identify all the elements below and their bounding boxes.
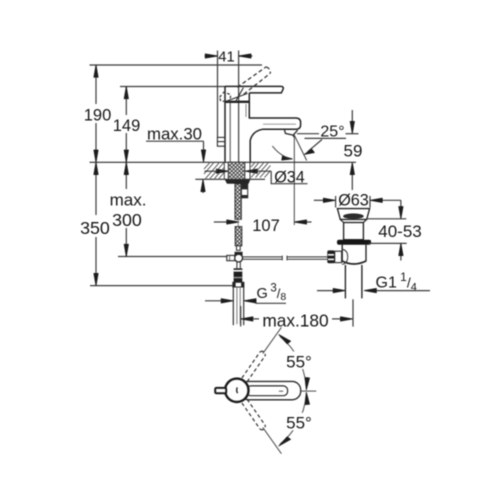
extension line 41 right / faucet centerline bbox=[238, 51, 240, 163]
SINK DECK bbox=[90, 162, 357, 179]
G 3/8 dimension arrows bbox=[205, 301, 286, 304]
stream swivel arc bbox=[272, 146, 290, 159]
dim 59 vertical upper tail bbox=[351, 110, 353, 123]
arrow 107 left->right bbox=[227, 220, 239, 224]
aerator outlet bbox=[284, 129, 297, 135]
rod socket body bbox=[335, 251, 342, 262]
dim line 350 vertical bbox=[95, 162, 97, 215]
svg-text:Ø63: Ø63 bbox=[338, 191, 369, 209]
extension line top of lever (190 ref) bbox=[90, 64, 263, 66]
body inner left line bbox=[229, 103, 231, 162]
spout inner line bbox=[263, 123, 296, 125]
raised lever dashed bbox=[220, 67, 271, 102]
arrow stream arc bbox=[282, 156, 293, 160]
deck bottom line bbox=[195, 178, 265, 180]
body right edge + spout outline bbox=[249, 93, 300, 162]
threaded rod upper bbox=[235, 184, 241, 220]
deck hatching left bbox=[204, 163, 271, 179]
base plate outline (keyhole) bbox=[240, 381, 301, 399]
svg-text:107: 107 bbox=[252, 217, 280, 235]
svg-text:max.180: max.180 bbox=[262, 310, 328, 330]
arrow max300 top bbox=[124, 163, 128, 175]
svg-text:max.30: max.30 bbox=[147, 124, 202, 143]
dashed lever rotated down 55 bbox=[242, 399, 266, 429]
stream vertical reference line bbox=[293, 135, 295, 225]
cartridge diagonal detail bbox=[227, 93, 248, 101]
hose stem below ball bbox=[236, 262, 238, 269]
extension line 41 left bbox=[217, 51, 219, 138]
arc arrow top-lower bbox=[305, 378, 309, 390]
cartridge seam thick bbox=[225, 101, 249, 103]
25deg underline bbox=[305, 137, 347, 139]
arc arrow bottom-upper bbox=[305, 392, 309, 404]
body bottom curve bbox=[342, 261, 366, 264]
handle end tick bbox=[279, 390, 283, 392]
svg-text:350: 350 bbox=[80, 218, 110, 238]
arrow O34 left bbox=[216, 169, 228, 173]
55 arc top bbox=[280, 337, 306, 387]
popup rod guide block bbox=[241, 184, 247, 198]
arrow 41 left bbox=[205, 54, 217, 58]
stream angled 25deg line bbox=[294, 135, 306, 160]
dim 59 vertical lower tail bbox=[351, 174, 353, 190]
svg-text:300: 300 bbox=[112, 210, 142, 230]
popup knob tab on body left bbox=[217, 137, 225, 146]
hose tube bbox=[232, 287, 234, 325]
arrow 350 top bbox=[94, 163, 98, 175]
svg-text:40-53: 40-53 bbox=[378, 222, 421, 241]
svg-text:41: 41 bbox=[218, 50, 234, 66]
55deg direction line up bbox=[263, 327, 282, 353]
svg-text:55°: 55° bbox=[286, 414, 312, 433]
dim line 149 vertical bbox=[125, 87, 127, 116]
svg-text:149: 149 bbox=[113, 117, 141, 135]
arrow 149 bottom bbox=[124, 150, 128, 162]
max30 lower arrow tail bbox=[202, 188, 204, 193]
svg-text:Ø34: Ø34 bbox=[274, 169, 305, 187]
max30 leader underline bbox=[146, 140, 204, 142]
rubber gasket ring bbox=[337, 240, 371, 245]
arrow 190 top bbox=[94, 65, 98, 77]
arrow 149 top bbox=[124, 87, 128, 99]
hose end tick bbox=[240, 306, 242, 327]
popup knob stub (top) bbox=[215, 388, 226, 393]
flange neck lines bbox=[340, 219, 343, 222]
svg-text:25°: 25° bbox=[320, 123, 344, 140]
55deg direction line down bbox=[263, 427, 282, 453]
TOP VIEW (swivel range) bbox=[215, 327, 316, 453]
arrow 59 bottom up bbox=[350, 163, 354, 175]
centerline right bbox=[301, 390, 317, 392]
dashed lever rotated up 55 bbox=[242, 351, 266, 381]
extension line lever top (149 ref) bbox=[120, 86, 226, 88]
svg-text:max.: max. bbox=[110, 191, 147, 210]
svg-text:55°: 55° bbox=[286, 352, 312, 371]
svg-text:59: 59 bbox=[344, 142, 363, 161]
dim line 190 vertical bbox=[95, 65, 97, 104]
arrow 41 right bbox=[239, 54, 251, 58]
horizontal popup rod bbox=[243, 256, 328, 261]
max180 dimension bbox=[241, 299, 353, 326]
lever handle top view bbox=[247, 386, 288, 396]
svg-text:190: 190 bbox=[84, 107, 112, 125]
dim line max300 vertical bbox=[125, 162, 127, 189]
drain upper body bbox=[344, 223, 364, 240]
arrow 190 bottom bbox=[94, 150, 98, 162]
DRAIN / POP-UP WASTE bbox=[314, 196, 430, 298]
rod gap centerline bbox=[237, 219, 239, 226]
locking nut dark bbox=[225, 180, 251, 184]
arrow 107 right->left bbox=[295, 220, 307, 224]
25deg leader line bbox=[308, 140, 323, 152]
rod left fitting bbox=[227, 255, 235, 260]
pivot mark bbox=[236, 387, 239, 393]
lever handle (solid, horizontal) bbox=[225, 86, 283, 93]
drain flange bbox=[337, 209, 369, 220]
G1 1/4 dimension bbox=[317, 290, 430, 292]
raised lever short end dashed pentagon bbox=[220, 92, 231, 101]
arrow max300 bottom bbox=[124, 244, 128, 256]
40-53 dimension bbox=[366, 200, 407, 260]
lever pivot diagonal bbox=[236, 88, 243, 101]
water stream indicator bbox=[272, 135, 306, 225]
plug dome cap bbox=[343, 213, 364, 219]
arrow max30 down bbox=[201, 150, 205, 162]
55 arc bottom bbox=[280, 396, 306, 444]
deck hatching right bbox=[251, 163, 271, 178]
deck hole edges bbox=[223, 162, 225, 179]
extension line hose coupling (350 ref) bbox=[90, 285, 233, 287]
drain lower body bbox=[341, 245, 343, 262]
supply hose assembly bbox=[233, 262, 244, 326]
svg-text:G3/8: G3/8 bbox=[257, 282, 287, 303]
dim 41 arrows tails bbox=[205, 55, 218, 57]
extension line popup rod (max300 ref) bbox=[118, 256, 227, 258]
rod socket boss arc bbox=[342, 249, 348, 264]
arrow 25deg leader bbox=[305, 149, 315, 154]
rod stem bbox=[237, 246, 241, 251]
O63 dimension bbox=[314, 196, 401, 208]
arrowheads group 1 bbox=[94, 54, 355, 286]
arc arrow top-upper bbox=[279, 335, 291, 344]
BELOW DECK: mounting shank bbox=[225, 162, 251, 262]
FAUCET MAIN VIEW bbox=[225, 86, 301, 162]
deck top line bbox=[90, 161, 357, 163]
threaded shank in deck hole bbox=[228, 162, 245, 179]
faucet body circle (top) bbox=[225, 379, 248, 402]
arrow max30 up (below deck) bbox=[201, 180, 205, 192]
body inner right line bbox=[245, 104, 247, 117]
faucet body left edge bbox=[224, 86, 226, 162]
dim 107 arrows tails bbox=[214, 221, 228, 223]
hose coupling bbox=[233, 282, 244, 287]
joint nut dark bbox=[235, 252, 243, 256]
tailpiece bbox=[344, 265, 346, 299]
drain centerline tick bbox=[352, 299, 354, 326]
ball joint bbox=[235, 254, 243, 262]
arrow 59 top down bbox=[350, 121, 354, 133]
arrow 350 bottom bbox=[94, 273, 98, 285]
dim O34 arrow tails bbox=[204, 170, 218, 172]
arc arrow bottom-lower bbox=[279, 437, 291, 446]
arrow O34 right bbox=[245, 169, 257, 173]
hose hex nut dark bbox=[234, 268, 243, 282]
O34 label bracket bbox=[271, 171, 307, 184]
threaded rod lower bbox=[235, 227, 242, 246]
dimension extension lines bbox=[90, 51, 359, 286]
rod socket nut dark bbox=[327, 250, 334, 263]
spout outlet level extension (59 ref / 25 underline) bbox=[297, 133, 319, 135]
svg-text:G1 1/4: G1 1/4 bbox=[376, 270, 417, 294]
